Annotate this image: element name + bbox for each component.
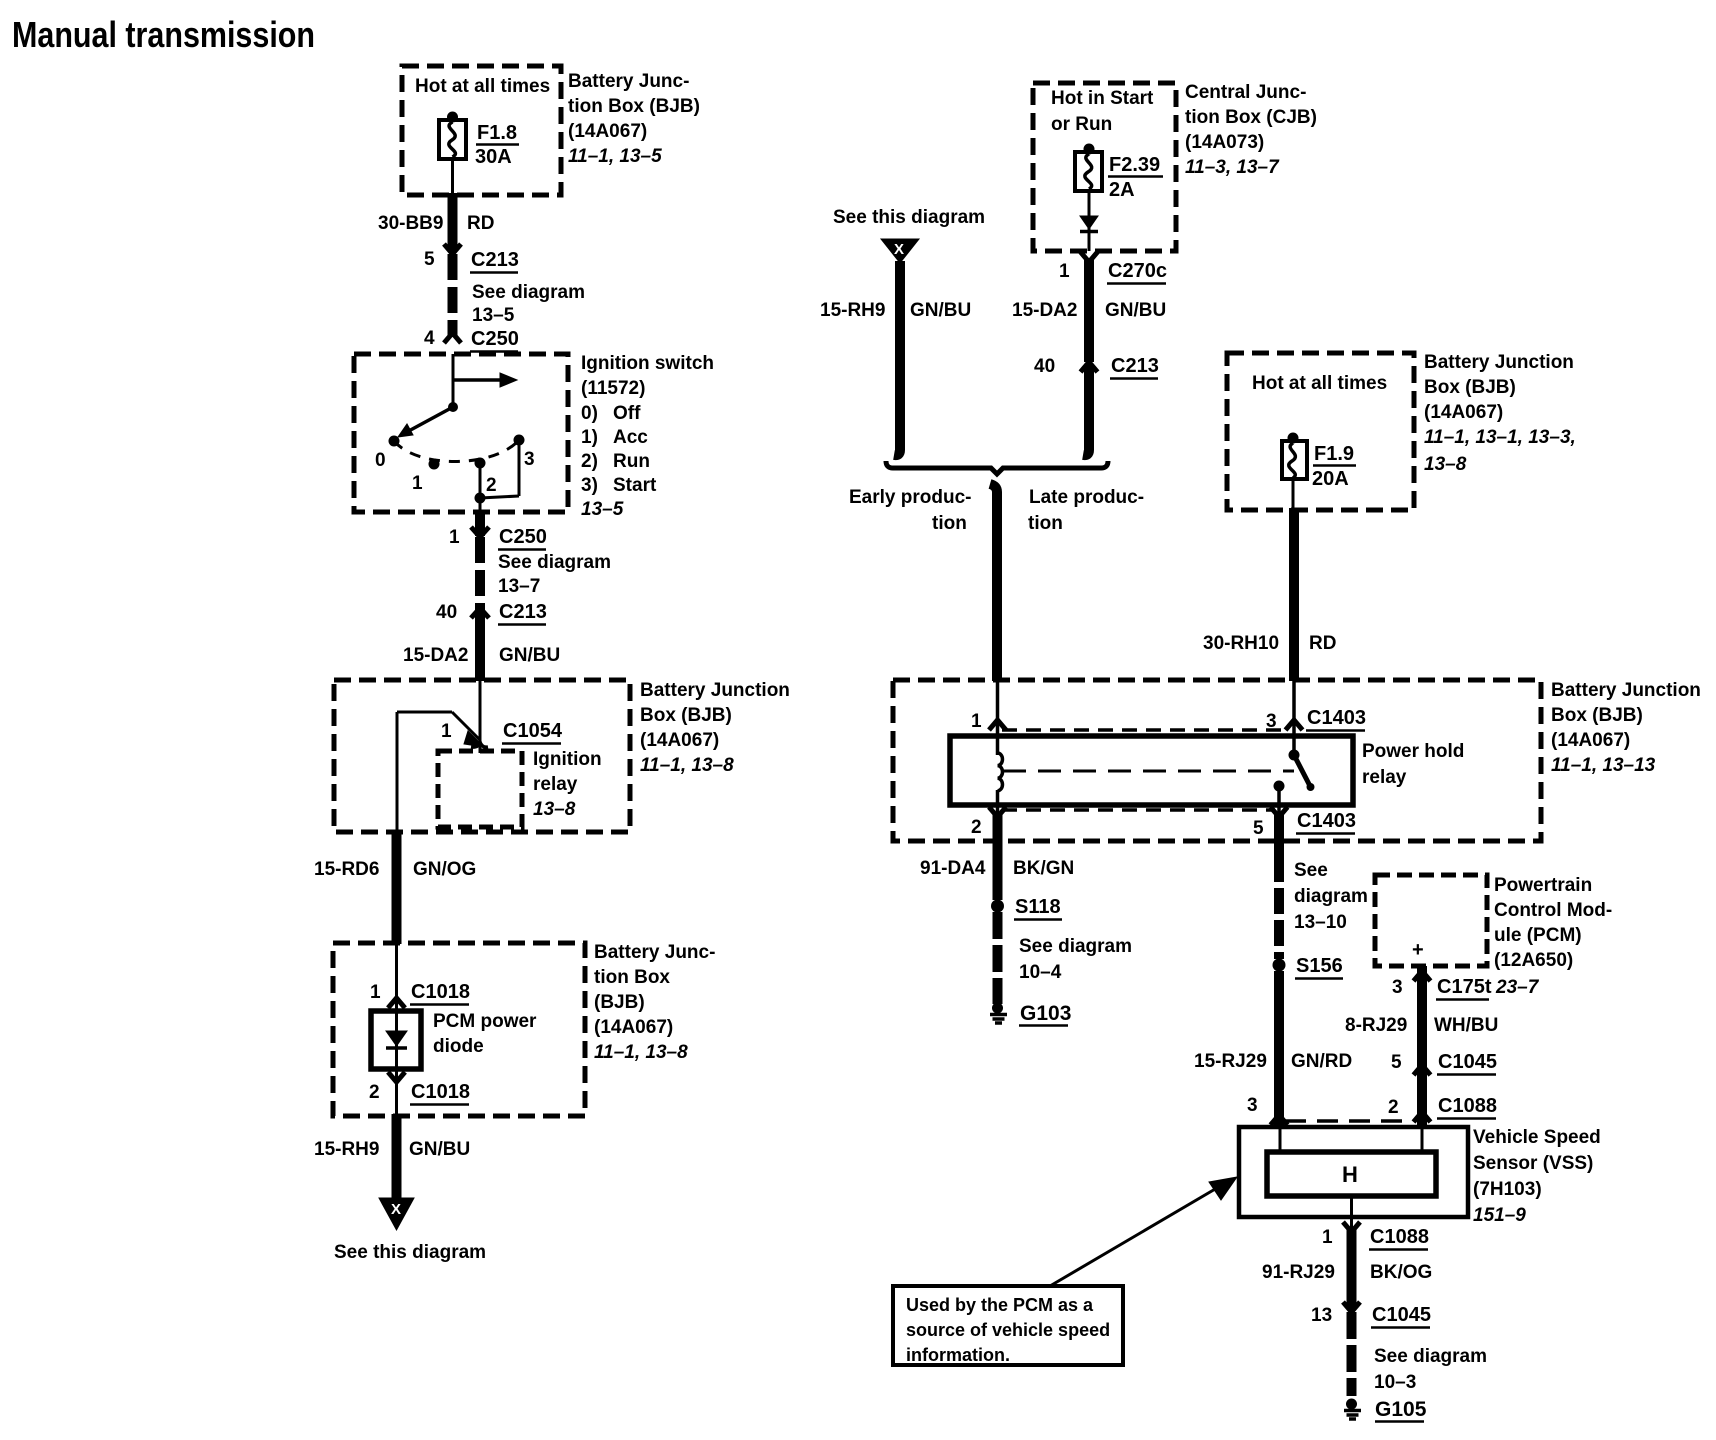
label: wire 15-RD6 GN/OG [314,859,476,880]
svg-text:Manual transmission: Manual transmission [12,14,315,55]
battery junction box BJB (14A067) PCM power diode dashed enclosure [333,943,585,1116]
svg-text:C1088: C1088 [1370,1226,1429,1248]
label: PCM power diode [433,1011,537,1057]
svg-text:23–7: 23–7 [1495,977,1540,998]
svg-text:2A: 2A [1109,179,1135,201]
svg-text:WH/BU: WH/BU [1434,1015,1498,1036]
svg-text:C213: C213 [499,601,547,623]
svg-text:Hot at all times: Hot at all times [1252,373,1387,394]
svg-text:Vehicle Speed: Vehicle Speed [1473,1127,1601,1148]
svg-text:C1018: C1018 [411,1081,470,1103]
label: wire 8-RJ29 WH/BU [1345,1015,1498,1036]
label: Battery Junction Box (BJB) (14A067) 11-1, 13-5 [568,71,700,167]
svg-text:Power hold: Power hold [1362,741,1464,762]
svg-text:(7H103): (7H103) [1473,1179,1542,1200]
svg-text:2: 2 [971,817,982,838]
svg-text:15-RD6: 15-RD6 [314,859,379,880]
label: wire 30-RH10 RD [1203,633,1336,654]
wire: pin 3 into relay contact [1292,680,1296,753]
label: Ignition switch (11572) 0)Off 1)Acc 2)Run 3)Start 13-5 [581,353,714,520]
svg-text:15-RH9: 15-RH9 [314,1139,379,1160]
svg-text:91-RJ29: 91-RJ29 [1262,1262,1335,1283]
svg-text:C1403: C1403 [1297,810,1356,832]
svg-text:S118: S118 [1015,896,1061,918]
svg-text:Ignition: Ignition [533,749,602,770]
svg-text:0: 0 [375,450,386,471]
wire: C213 to BJB ignition relay (15-DA2 GN/BU) [475,612,485,681]
wire: contact to pin 5 [1277,786,1281,814]
svg-text:0): 0) [581,403,598,424]
svg-text:13–8: 13–8 [1424,454,1467,475]
svg-text:Battery Junction: Battery Junction [1551,680,1701,701]
wire: dashed S118 to ground G103 [993,912,1003,1004]
svg-text:Used by the PCM as a: Used by the PCM as a [906,1295,1094,1315]
svg-text:2: 2 [1388,1097,1399,1118]
splice S118 [991,896,1062,920]
svg-text:GN/RD: GN/RD [1291,1051,1352,1072]
wire: terminal 2 and 3 to switch output [475,440,520,504]
svg-text:8-RJ29: 8-RJ29 [1345,1015,1407,1036]
relay switch contact [1274,750,1315,792]
svg-text:source of vehicle speed: source of vehicle speed [906,1320,1110,1340]
wire: pin 5 dashed down (see diagram 13-10) [1274,814,1284,856]
svg-text:3): 3) [581,475,598,496]
svg-text:Early produc-: Early produc- [849,487,971,508]
svg-text:Battery Junc-: Battery Junc- [594,942,715,963]
svg-text:RD: RD [1309,633,1336,654]
svg-text:11–3, 13–7: 11–3, 13–7 [1185,157,1280,178]
wire: VSS output to C1088 pin 1 [1350,1196,1353,1232]
wire: dashed C1045 to ground G105 [1347,1312,1357,1396]
wire: into diode [395,943,398,1011]
connector C1403 pin 5 arrow and label [1253,807,1356,839]
svg-text:15-RH9: 15-RH9 [820,300,885,321]
svg-text:13–5: 13–5 [472,305,515,326]
svg-text:1: 1 [441,721,452,742]
svg-text:11–1, 13–13: 11–1, 13–13 [1551,755,1656,776]
svg-text:Control Mod-: Control Mod- [1494,900,1612,921]
connector C1088 pin 1 arrow and label [1322,1222,1429,1250]
svg-text:+: + [1412,939,1424,961]
svg-text:2: 2 [486,475,497,496]
svg-text:1: 1 [1059,261,1070,282]
relay coil [998,753,1003,791]
wire: into switch input node [452,354,455,407]
VSS inner element H box [1267,1152,1436,1196]
label: See diagram 10-3 [1374,1346,1487,1393]
wire: diode to off-page arrow (15-RH9 GN/BU) [395,1069,398,1200]
svg-text:(14A067): (14A067) [1551,730,1630,751]
svg-text:C1045: C1045 [1372,1304,1431,1326]
svg-text:2: 2 [369,1082,380,1103]
label: Battery Junction Box (BJB) (14A067) 11-1, 13-8 [594,942,715,1063]
svg-text:(14A067): (14A067) [1424,402,1503,423]
power hold relay solid box [950,736,1353,805]
svg-text:11–1, 13–8: 11–1, 13–8 [594,1042,688,1063]
battery junction box BJB (14A067) ignition relay dashed enclosure [334,680,630,832]
svg-text:tion: tion [932,513,967,534]
label: Early production [849,487,971,534]
wire: C213 down to junction bracket [1083,366,1089,455]
svg-text:Run: Run [613,451,650,472]
connector C1088 pin 3 arrow [1247,1095,1288,1125]
label: wire 15-RH9 GN/BU [820,300,971,321]
svg-text:30-BB9: 30-BB9 [378,213,443,234]
svg-text:C1054: C1054 [503,720,563,742]
svg-text:tion: tion [1028,513,1063,534]
svg-text:Powertrain: Powertrain [1494,875,1592,896]
svg-text:5: 5 [424,249,435,270]
label: wire 15-DA2 GN/BU [1012,300,1166,321]
switch rotary contact arc (dashed) [394,440,519,462]
label: wire 30-BB9 RD [378,213,494,234]
dashed connector line below relay (left) [1002,808,1275,812]
off-page connector X arrow down [379,1198,414,1230]
svg-text:(14A067): (14A067) [594,1017,673,1038]
terminal 0 [375,436,400,472]
svg-text:40: 40 [1034,356,1055,377]
svg-text:C1403: C1403 [1307,707,1366,729]
wire: 15-RD6 GN/OG to PCM power diode [392,831,402,944]
svg-text:H: H [1342,1162,1358,1187]
ground G103 [990,1002,1071,1026]
wire: VSS pin 3 lead inside [1279,1127,1282,1152]
svg-text:ule (PCM): ule (PCM) [1494,925,1582,946]
svg-text:GN/OG: GN/OG [413,859,476,880]
svg-text:RD: RD [467,213,494,234]
svg-text:11–1, 13–1, 13–3,: 11–1, 13–1, 13–3, [1424,427,1576,448]
svg-text:(14A073): (14A073) [1185,132,1264,153]
svg-text:Ignition switch: Ignition switch [581,353,714,374]
label: See diagram 13-7 [498,552,611,597]
svg-text:4: 4 [424,328,435,349]
switch wiper arm with arrowhead toward terminal 0 [398,402,458,437]
battery junction box BJB (14A067) F1.8 dashed enclosure [402,66,561,195]
dashed connector line above relay [1002,728,1290,732]
svg-text:11–1, 13–8: 11–1, 13–8 [640,755,734,776]
wire: coil to pin 2 [996,790,1000,812]
svg-text:C1045: C1045 [1438,1051,1497,1073]
svg-text:1: 1 [449,527,460,548]
svg-text:C250: C250 [471,328,519,350]
label: Late production [1028,487,1144,534]
label: wire 15-DA2 GN/BU [403,645,560,666]
label: wire 91-RJ29 BK/OG [1262,1262,1432,1283]
svg-text:GN/BU: GN/BU [1105,300,1166,321]
svg-text:BK/OG: BK/OG [1370,1262,1432,1283]
wire: fuse F1.8 to C213 (30-BB9 RD) [451,159,454,195]
wire: into C1054 [479,680,482,744]
svg-text:tion Box (CJB): tion Box (CJB) [1185,107,1317,128]
wire: bracket to power hold relay pin 1 [990,484,997,681]
svg-text:PCM power: PCM power [433,1011,537,1032]
label: wire 91-DA4 BK/GN [920,858,1074,879]
wire: VSS pin 2 lead inside [1421,1127,1424,1152]
svg-text:2): 2) [581,451,598,472]
svg-text:See diagram: See diagram [498,552,611,573]
svg-text:1): 1) [581,427,598,448]
svg-text:5: 5 [1253,818,1264,839]
wire: pin 1 into relay coil [996,680,1000,755]
svg-text:GN/BU: GN/BU [499,645,560,666]
connector C175t pin 3 arrow and label [1392,971,1540,1000]
terminal 2 [475,458,497,497]
connector C1054 pin 1 arrow [441,720,563,747]
label: Power hold relay [1362,741,1464,788]
connector C1018 pin 2 arrow [369,1072,470,1105]
svg-text:1: 1 [370,982,381,1003]
svg-text:(BJB): (BJB) [594,992,645,1013]
junction bracket joining early/late production [886,461,1108,474]
svg-text:13–8: 13–8 [533,799,576,820]
svg-text:Battery Junc-: Battery Junc- [568,71,689,92]
svg-text:(12A650): (12A650) [1494,950,1573,971]
svg-text:X: X [894,241,904,258]
svg-text:91-DA4: 91-DA4 [920,858,986,879]
label: Ignition relay 13-8 [533,749,602,820]
svg-text:G105: G105 [1375,1398,1427,1421]
svg-text:Off: Off [613,403,641,424]
connector C250 pin 1 arrow [449,526,547,550]
connector C1403 pin 2 arrow [971,807,1006,838]
svg-text:C270c: C270c [1108,260,1167,282]
label: See diagram 13-5 [472,282,585,326]
dashed connector line C1088 at VSS [1285,1119,1413,1123]
svg-text:relay: relay [1362,767,1407,788]
svg-text:See this diagram: See this diagram [334,1242,486,1263]
wire: 91-RJ29 BK/OG to C1045 [1347,1230,1357,1308]
svg-text:C175t: C175t [1437,976,1492,998]
wire: pin 2 to splice S118 (91-DA4 BK/GN) [993,812,1003,900]
label: Powertrain Control Module (PCM) (12A650) [1494,875,1612,971]
svg-text:See this diagram: See this diagram [833,207,985,228]
svg-text:10–3: 10–3 [1374,1372,1416,1393]
svg-text:diode: diode [433,1036,484,1057]
svg-text:(14A067): (14A067) [640,730,719,751]
svg-text:F2.39: F2.39 [1109,154,1160,176]
svg-text:Box (BJB): Box (BJB) [640,705,732,726]
wire: early production 15-RH9 GN/BU [894,261,900,455]
svg-text:Battery Junction: Battery Junction [1424,352,1574,373]
connector C250 pin 4 arrow [424,328,519,352]
fuse F1.8 30A [439,112,519,169]
svg-text:F1.9: F1.9 [1314,443,1354,465]
label: Vehicle Speed Sensor (VSS) (7H103) 151-9 [1473,1127,1601,1226]
svg-text:Hot in Start: Hot in Start [1051,88,1154,109]
wire: S156 to VSS pin 3 (15-RJ29 GN/RD) [1274,971,1284,1125]
svg-text:information.: information. [906,1345,1010,1365]
svg-text:relay: relay [533,774,578,795]
svg-text:C250: C250 [499,526,547,548]
ignition relay dashed box [438,751,522,827]
wire: fuse F1.9 to BJB box edge [1292,479,1295,510]
svg-text:13–7: 13–7 [498,576,540,597]
svg-text:Battery Junction: Battery Junction [640,680,790,701]
off-page connector X arrow (early production) [881,239,919,263]
svg-text:11–1, 13–5: 11–1, 13–5 [568,146,662,167]
wire: PCM to VSS pin 2 (8-RJ29 WH/BU) [1417,966,1427,1125]
svg-text:(11572): (11572) [581,378,645,399]
fuse F2.39 2A [1075,144,1163,202]
wire: dashed C213 to C250 [448,254,458,336]
svg-text:Box (BJB): Box (BJB) [1551,705,1643,726]
label: wire 15-RJ29 GN/RD [1194,1051,1352,1072]
central junction box CJB (14A073) dashed enclosure [1033,83,1176,251]
battery junction box BJB (14A067) power hold relay dashed enclosure [893,680,1541,841]
label: Battery Junction Box (BJB) (14A067) 11-1, 13-1, 13-3, 13-8 [1424,352,1576,475]
svg-text:See diagram: See diagram [472,282,585,303]
wire: C1054 into ignition relay [479,744,482,753]
svg-text:15-RJ29: 15-RJ29 [1194,1051,1267,1072]
wire: dashed C250 to C213 [475,537,485,614]
svg-text:5: 5 [1391,1052,1402,1073]
svg-text:13–5: 13–5 [581,499,624,520]
svg-text:BK/GN: BK/GN [1013,858,1074,879]
svg-text:C1018: C1018 [411,981,470,1003]
label: Battery Junction Box (BJB) (14A067) 11-1, 13-8 [640,680,790,776]
terminal 3 [514,435,535,471]
svg-text:Start: Start [613,475,657,496]
svg-text:F1.8: F1.8 [477,122,517,144]
svg-text:diagram: diagram [1294,886,1368,907]
svg-text:3: 3 [524,449,535,470]
svg-text:15-DA2: 15-DA2 [1012,300,1077,321]
svg-text:13: 13 [1311,1305,1332,1326]
svg-text:C213: C213 [1111,355,1159,377]
svg-text:GN/BU: GN/BU [409,1139,470,1160]
battery junction box BJB (14A067) F1.9 dashed enclosure [1227,353,1414,510]
connector C213 pin 5 arrow [424,244,519,273]
svg-text:X: X [391,1201,401,1218]
svg-text:1: 1 [1322,1227,1333,1248]
svg-text:C1088: C1088 [1438,1095,1497,1117]
svg-text:30A: 30A [475,146,512,168]
svg-text:G103: G103 [1020,1002,1071,1025]
svg-text:3: 3 [1247,1095,1258,1116]
svg-text:151–9: 151–9 [1473,1205,1526,1226]
svg-text:S156: S156 [1296,955,1343,977]
svg-text:1: 1 [971,711,982,732]
label: Hot in Start or Run [1051,88,1154,135]
label: Battery Junction Box (BJB) (14A067) 11-1, 13-13 [1551,680,1701,776]
svg-text:30-RH10: 30-RH10 [1203,633,1279,654]
fuse F1.9 20A [1282,433,1356,491]
wire: late production 15-DA2 GN/BU [1084,258,1094,362]
wire: relay return path to box exit [397,712,480,834]
connector C1045 pin 5 arrow and label [1391,1051,1497,1075]
terminal 1 [412,459,440,495]
connector C1403 pin 3 arrow and label [1266,707,1366,732]
diode D1 PCM power diode box [371,1011,421,1069]
svg-text:3: 3 [1392,977,1403,998]
svg-text:See diagram: See diagram [1019,936,1132,957]
svg-text:Sensor (VSS): Sensor (VSS) [1473,1153,1593,1174]
note box: Used by the PCM as a source of vehicle speed information [893,1286,1123,1365]
vehicle speed sensor VSS (7H103) box [1239,1127,1468,1217]
pointer arrow from note box to VSS [1050,1177,1237,1286]
ground G105 [1344,1398,1427,1422]
label: See diagram 10-4 [1019,936,1132,983]
svg-text:Box (BJB): Box (BJB) [1424,377,1516,398]
connector C213 pin 40 arrow [436,601,547,625]
svg-text:Acc: Acc [613,427,648,448]
svg-text:20A: 20A [1312,468,1349,490]
svg-text:40: 40 [436,602,457,623]
dashed actuation line from coil to contact [1003,770,1294,773]
connector C270c pin 1 arrow [1059,252,1167,284]
label: wire 15-RH9 GN/BU [314,1139,470,1160]
svg-text:Hot at all times: Hot at all times [415,76,550,97]
svg-text:GN/BU: GN/BU [910,300,971,321]
svg-text:See diagram: See diagram [1374,1346,1487,1367]
diode feed arrow inside CJB [1080,191,1098,251]
connector C1018 pin 1 arrow [370,981,470,1008]
connector C1403 pin 1 arrow [971,711,1006,732]
connector C1088 pin 2 arrow and label [1388,1095,1497,1122]
label: See diagram 13-10 [1294,860,1368,933]
wire: 30-RH10 RD down to relay pin 3 [1289,508,1299,681]
wire: switch output to C250 [479,498,482,528]
svg-text:tion Box: tion Box [594,967,670,988]
svg-text:1: 1 [412,473,423,494]
ignition switch (11572) dashed enclosure [354,354,568,512]
svg-text:13–10: 13–10 [1294,912,1347,933]
svg-text:tion Box (BJB): tion Box (BJB) [568,96,700,117]
svg-text:Central Junc-: Central Junc- [1185,82,1306,103]
node: switch feed with right arrow [453,373,517,387]
svg-text:or Run: or Run [1051,114,1112,135]
svg-text:(14A067): (14A067) [568,121,647,142]
svg-text:See: See [1294,860,1328,881]
label: Central Junction Box (CJB) (14A073) 11-3, 13-7 [1185,82,1317,178]
powertrain control module PCM (12A650) dashed enclosure [1375,875,1487,966]
svg-text:10–4: 10–4 [1019,962,1062,983]
svg-text:C213: C213 [471,249,519,271]
svg-text:Late produc-: Late produc- [1029,487,1144,508]
svg-text:15-DA2: 15-DA2 [403,645,468,666]
connector C213 pin 40 arrow [1034,355,1159,379]
splice S156 [1273,955,1344,979]
connector C1045 pin 13 arrow and label [1311,1302,1431,1328]
